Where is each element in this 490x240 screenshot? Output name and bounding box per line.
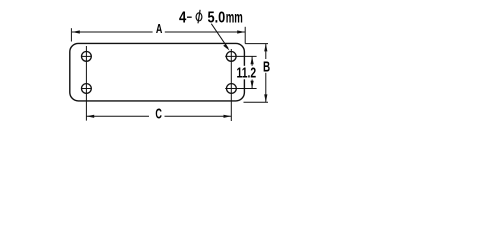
dimension C arrow right [224, 115, 232, 118]
dimension B arrow bottom [264, 94, 267, 102]
svg-text:A: A [156, 22, 162, 36]
label B halo [263, 60, 273, 73]
dimension A extension line left [70, 28, 72, 41]
label 11.2 halo [237, 66, 257, 80]
dimension B line [265, 44, 267, 59]
hole bottom-right [227, 84, 237, 94]
leader arrowhead [223, 44, 229, 51]
svg-text:5.0: 5.0 [208, 9, 226, 27]
dimension A line [72, 31, 153, 33]
dimension 11.2 arrow bottom [251, 81, 254, 89]
crosshair horizontal hole bottom-left [81, 88, 91, 90]
svg-text:mm: mm [226, 8, 243, 26]
callout dash [187, 16, 192, 18]
phi symbol (diameter) [196, 13, 202, 21]
leader line for hole callout [211, 24, 228, 49]
dimension B extension line bottom [244, 101, 269, 103]
svg-text:B: B [263, 58, 270, 75]
dimension A extension line right [244, 27, 246, 44]
crosshair horizontal hole top-left [81, 55, 91, 57]
dimension 11.2 arrow top [251, 56, 254, 64]
dimension A arrow right [237, 30, 245, 33]
hole bottom-left [82, 84, 92, 94]
dimension C line [86, 115, 149, 117]
crosshair + extension line hole top-right (11.2 dim) [225, 55, 256, 57]
hole top-right [226, 52, 236, 62]
svg-text:4: 4 [179, 9, 187, 26]
centerline vertical left column [85, 46, 87, 121]
dimension C arrow left [86, 115, 94, 118]
dimension B arrow top [264, 44, 267, 52]
dimension A arrow left [72, 30, 80, 33]
hole top-left [82, 52, 92, 62]
dimension B extension line top [245, 43, 268, 45]
dimension 11.2 line (vertical, arrows outward) [251, 56, 253, 66]
crosshair + extension line hole bottom-right (11.2 dim) [225, 88, 256, 90]
svg-text:11.2: 11.2 [237, 65, 257, 81]
svg-text:C: C [155, 105, 162, 122]
plate outline (rounded rectangle) [70, 43, 245, 101]
centerline vertical right column [230, 49, 232, 121]
